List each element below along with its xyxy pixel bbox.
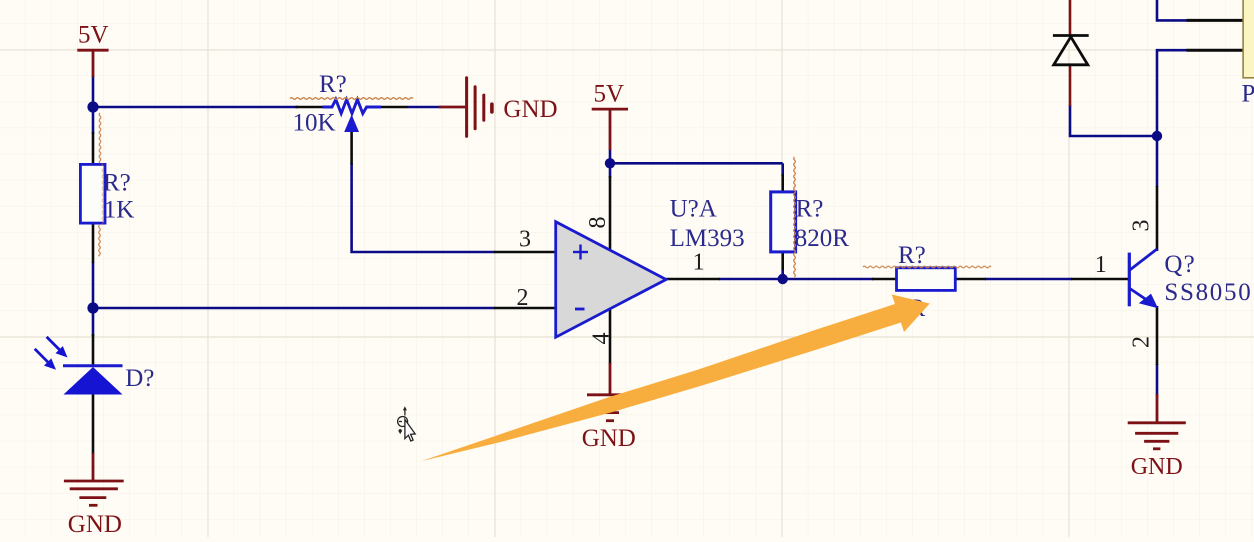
transistor Q? emitter arrowhead — [1139, 294, 1158, 309]
svg-text:SS8050: SS8050 — [1164, 279, 1252, 306]
pin pot right — [381, 106, 408, 109]
wire series resistor to transistor base — [985, 278, 1072, 281]
svg-text:R?: R? — [796, 196, 824, 223]
resistor R? series body — [897, 268, 956, 291]
svg-text:LM393: LM393 — [670, 225, 745, 252]
wire pot wiper down and right to op-amp pin3 — [352, 163, 495, 252]
pin R1K bottom — [92, 222, 95, 263]
ground GND (below transistor) — [1128, 394, 1186, 449]
pin transistor emitter 2 — [1156, 306, 1159, 365]
svg-text:5V: 5V — [594, 81, 625, 108]
compile squiggle 820R — [794, 157, 796, 277]
svg-text:GND: GND — [582, 425, 636, 452]
power port 5V (left) — [77, 50, 108, 77]
transistor Q? collector diagonal — [1130, 249, 1157, 270]
pin pot wiper — [350, 131, 353, 165]
wire 5V1 stem to junction — [92, 76, 95, 107]
wire node B down to photodiode — [92, 308, 95, 336]
wire 820R top stub — [781, 163, 784, 176]
potentiometer wiper arrow — [344, 115, 359, 133]
svg-text:820R: 820R — [795, 225, 850, 252]
pin transistor base 1 — [1071, 278, 1129, 281]
photodiode light arrow 1 — [47, 337, 68, 358]
pin transistor collector 3 — [1156, 186, 1159, 251]
junction node D — [778, 274, 788, 284]
wire diode bottom L to node E — [1070, 105, 1157, 136]
power port 5V (op-amp) — [592, 109, 628, 150]
pin connector P pin1 — [1187, 19, 1244, 22]
wire pot right to GND port — [407, 106, 441, 109]
wire node B to op-amp pin2 — [93, 307, 495, 310]
svg-text:4: 4 — [589, 333, 615, 345]
pin op-amp 2 — [494, 307, 556, 310]
svg-text:R?: R? — [103, 170, 131, 197]
svg-text:R?: R? — [319, 71, 347, 98]
op-amp minus mark — [575, 308, 585, 311]
pin pot left — [296, 106, 323, 109]
pin connector P pin2 — [1187, 49, 1244, 52]
connector P? body (clipped at right edge) — [1243, 0, 1254, 78]
ground GND (below photodiode) — [64, 453, 124, 505]
svg-text:2: 2 — [517, 285, 529, 311]
compile squiggle pot — [290, 98, 413, 100]
photodiode D? cathode bar — [63, 364, 123, 367]
annotation arrow (orange) — [421, 295, 930, 462]
wire node C down to pin8 — [609, 163, 612, 178]
svg-text:1K: 1K — [104, 197, 135, 224]
pin op-amp 3 — [494, 251, 556, 254]
potentiometer R? 10K zigzag — [323, 100, 382, 114]
svg-text:U?A: U?A — [670, 196, 717, 223]
compile squiggle series R — [863, 266, 991, 268]
wire transistor emitter to GND stem — [1156, 364, 1159, 396]
svg-text:R?: R? — [898, 242, 926, 269]
wire top horizontal from node A to pot — [93, 106, 298, 109]
pin op-amp 4 — [609, 306, 612, 365]
op-amp U1 triangle — [556, 222, 666, 338]
svg-text:2: 2 — [1129, 336, 1155, 348]
svg-text:GND: GND — [1131, 454, 1183, 480]
wire diode bottom (red) — [1069, 65, 1072, 106]
ground GND (below op-amp pin4) — [587, 363, 633, 421]
wire node E down to collector — [1156, 136, 1159, 187]
wire 5V2 to node C — [609, 149, 612, 164]
svg-text:Q?: Q? — [1164, 251, 1196, 278]
junction node E — [1152, 131, 1162, 141]
wire top edge to connector pin1 — [1157, 0, 1188, 20]
pin op-amp 1 output — [666, 278, 720, 281]
mouse scroll icon — [398, 406, 408, 434]
svg-text:5V: 5V — [78, 22, 109, 49]
wire 820R bottom stub to node D — [781, 269, 784, 279]
compile squiggle R1K — [99, 113, 101, 163]
junction node C — [605, 158, 615, 168]
diode (top right, black) triangle — [1054, 37, 1088, 65]
wire diode top (red) — [1069, 0, 1072, 36]
svg-text:D?: D? — [125, 365, 154, 392]
svg-text:P: P — [1242, 81, 1254, 108]
svg-text:1: 1 — [1095, 252, 1107, 278]
pin op-amp 8 — [609, 176, 612, 250]
wire node E up to connector pin2 — [1157, 50, 1188, 136]
pin 820R bottom — [781, 251, 784, 270]
svg-text:10K: 10K — [293, 110, 336, 137]
pin 820R top — [781, 174, 784, 193]
junction node A — [87, 101, 98, 112]
op-amp plus mark — [573, 245, 588, 260]
transistor Q? base bar — [1128, 253, 1131, 307]
wire R 1K bottom to node B — [92, 262, 95, 308]
svg-text:GND: GND — [68, 511, 122, 537]
svg-text:1: 1 — [693, 250, 705, 276]
transistor Q? emitter diagonal — [1130, 289, 1152, 304]
junction node B — [87, 302, 98, 313]
mouse cursor pointer — [405, 420, 415, 442]
resistor R? 820R body — [771, 192, 796, 252]
pin series R right — [955, 278, 986, 281]
pin photodiode top — [92, 334, 95, 366]
wire node C to R 820R top — [610, 162, 783, 165]
svg-text:8: 8 — [585, 217, 611, 229]
resistor R? 1K body — [80, 164, 105, 223]
pin photodiode bottom — [92, 394, 95, 454]
svg-text:3: 3 — [519, 227, 531, 253]
pin series R left — [872, 278, 897, 281]
pin R1K top — [92, 132, 95, 166]
diode (top right, black) bar — [1053, 34, 1089, 37]
wire op-amp output to series resistor — [719, 278, 874, 281]
ground GND (battery-bar style, right of pot) — [440, 78, 492, 137]
photodiode light arrow 2 — [35, 349, 56, 370]
photodiode D? triangle — [64, 367, 123, 395]
svg-text:3: 3 — [1129, 220, 1155, 232]
svg-text:GND: GND — [503, 96, 557, 123]
wire node A down to R 1K — [92, 107, 95, 134]
